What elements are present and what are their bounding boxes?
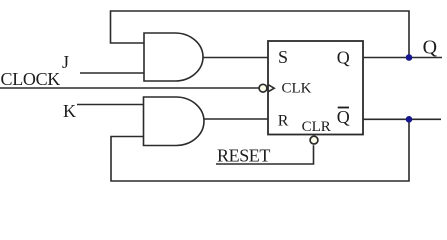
wire: U1 output to S input [203, 57, 268, 59]
wire: J input [80, 72, 144, 74]
bubble: CLK inversion circle [259, 84, 267, 92]
overline of Qbar pin label [338, 107, 349, 109]
wire: Qbar output [363, 118, 441, 120]
svg-text:Q: Q [337, 107, 350, 127]
svg-text:R: R [278, 112, 289, 129]
bubble: CLR inversion circle [310, 136, 318, 144]
svg-text:CLOCK: CLOCK [1, 69, 61, 89]
wire: K input [77, 104, 144, 106]
svg-text:Q: Q [337, 48, 350, 68]
AND gate U1 (top, J gate) [144, 33, 203, 81]
wire: Qbar feedback (bottom rail to bottom AND gate input) [111, 119, 409, 181]
wire: CLOCK line to CLK bubble [0, 87, 259, 89]
AND gate U2 (bottom, K gate) [144, 97, 205, 146]
junction dot: Q node [406, 54, 413, 61]
svg-text:K: K [63, 101, 76, 121]
wire: RESET to CLR bubble [216, 145, 314, 164]
svg-text:CLR: CLR [302, 119, 331, 135]
svg-text:RESET: RESET [217, 146, 270, 166]
flip-flop U3 body [268, 41, 363, 135]
pin: CLK dynamic indicator triangle [268, 85, 274, 92]
svg-text:S: S [278, 47, 288, 67]
wire: Q feedback (top rail from Q junction to top AND gate input) [111, 11, 410, 58]
wire: Q output [363, 57, 442, 59]
wire: U2 output to R input [204, 118, 268, 120]
svg-text:Q: Q [423, 36, 438, 58]
svg-text:J: J [62, 52, 69, 72]
svg-text:CLK: CLK [282, 81, 312, 97]
junction dot: Qbar node [406, 116, 413, 123]
